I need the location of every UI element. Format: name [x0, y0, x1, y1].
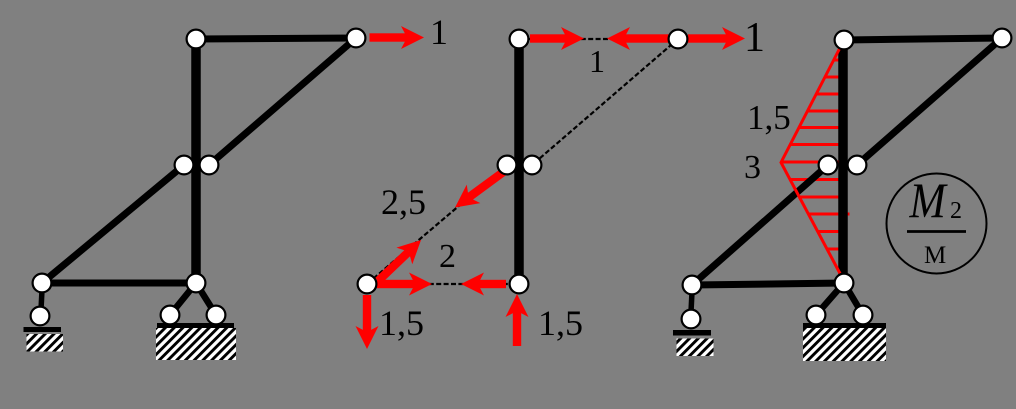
support hatch box big right frame — [803, 328, 886, 361]
hinge top-left — [187, 30, 206, 49]
hinge mid-left right frame — [819, 156, 838, 175]
support bar small left frame — [24, 327, 62, 332]
svg-text:2,5: 2,5 — [381, 182, 426, 222]
hinge mid-left — [175, 156, 194, 175]
beam top left frame — [196, 38, 356, 39]
support circle A right frame — [807, 306, 826, 325]
load arrow at top-right node — [688, 27, 745, 50]
hinge bottom-column middle — [510, 275, 529, 294]
force arrow along upper part of lower diagonal — [448, 162, 511, 217]
column middle figure — [514, 39, 524, 284]
moment hatch lines upper — [782, 60, 850, 249]
hinge bottom-left middle — [358, 275, 377, 294]
bottom chord left frame — [42, 280, 196, 287]
support roller circle right frame — [682, 310, 701, 329]
hinge mid-right right frame — [848, 156, 867, 175]
support leg right right frame — [844, 283, 863, 315]
support hatch box small left frame — [27, 334, 64, 352]
support bar big left frame — [157, 323, 234, 328]
hinge top-left right frame — [835, 31, 854, 50]
support link right frame — [691, 292, 692, 312]
upper diagonal right frame — [857, 38, 1002, 165]
svg-text:1,5: 1,5 — [538, 303, 583, 343]
force arrow down at bottom-left node — [356, 295, 379, 349]
support circle B — [207, 306, 226, 325]
force arrow left at bottom-column node — [461, 273, 506, 296]
support circle B right frame — [854, 306, 873, 325]
hinge mid-left middle — [498, 156, 517, 175]
hinge mid-right middle — [523, 156, 542, 175]
load arrow P=1 — [370, 26, 425, 49]
force arrow along lower part of lower diagonal — [370, 232, 429, 290]
support bar big right frame — [803, 323, 886, 328]
support leg left right frame — [816, 283, 844, 315]
force arrow right at top-left node — [530, 27, 584, 50]
hinge mid-right — [200, 156, 219, 175]
support leg right — [196, 283, 216, 315]
beam top right frame — [844, 38, 1002, 40]
svg-text:М: М — [924, 242, 946, 269]
support link left frame — [41, 290, 42, 310]
dashed lower diagonal — [367, 165, 507, 284]
svg-text:1,5: 1,5 — [379, 303, 424, 343]
force arrow right at bottom-left node — [377, 273, 432, 296]
moment diagram outline — [781, 40, 844, 281]
upper diagonal left frame — [209, 38, 356, 165]
dashed upper diagonal — [532, 39, 678, 165]
support hatch box small right frame — [677, 339, 714, 357]
support circle A — [161, 306, 180, 325]
hinge top-left middle — [510, 30, 529, 49]
force arrow left at top-right node — [607, 27, 671, 50]
hinge bottom-column — [187, 274, 206, 293]
support bar small right frame — [673, 330, 711, 336]
hinge bottom-left right frame — [683, 276, 702, 295]
dashed bottom chord — [377, 283, 509, 285]
lower diagonal right frame — [692, 165, 828, 285]
svg-text:2: 2 — [439, 238, 456, 275]
diagram name circle — [887, 174, 987, 274]
force arrow up at bottom-column node — [506, 294, 529, 346]
hinge top-right right frame — [993, 29, 1012, 48]
svg-text:1: 1 — [589, 43, 605, 79]
svg-text:1: 1 — [744, 15, 765, 61]
support leg left — [170, 283, 196, 315]
svg-text:1: 1 — [430, 12, 448, 52]
dashed top chord — [529, 38, 668, 40]
lower diagonal left frame — [42, 165, 184, 283]
hinge top-right middle — [669, 30, 688, 49]
hinge bottom-column right frame — [835, 274, 854, 293]
svg-text:2: 2 — [950, 198, 962, 224]
svg-text:1,5: 1,5 — [747, 98, 791, 137]
support hatch box big left frame — [156, 328, 236, 360]
hinge bottom-left — [33, 274, 52, 293]
column left frame — [191, 39, 201, 283]
bottom chord right frame — [692, 283, 844, 285]
support roller circle left — [31, 307, 50, 326]
hinge top-right — [347, 29, 366, 48]
svg-text:M: M — [909, 173, 949, 228]
column right frame — [838, 40, 848, 283]
fraction bar — [907, 230, 966, 233]
svg-text:3: 3 — [744, 149, 761, 186]
